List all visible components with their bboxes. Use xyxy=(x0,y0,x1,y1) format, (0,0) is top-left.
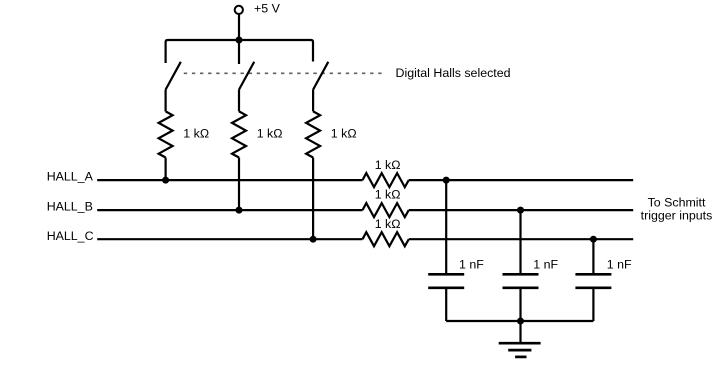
resistor R6 on HALL_C xyxy=(363,232,409,246)
switch S1 xyxy=(166,62,181,90)
wire HALL_B left xyxy=(97,209,362,211)
node rail/ground junction xyxy=(517,318,524,325)
capacitor C3 xyxy=(575,273,611,276)
wire HALL_B to C2 xyxy=(519,210,521,274)
resistor R5 on HALL_B xyxy=(363,203,409,217)
ground xyxy=(499,343,541,357)
resistor R4 on HALL_A xyxy=(363,173,409,187)
svg-text:1 kΩ: 1 kΩ xyxy=(183,127,209,141)
wire top bus xyxy=(166,40,313,63)
node supply/bus junction xyxy=(236,37,243,44)
svg-text:HALL_B: HALL_B xyxy=(47,200,93,214)
svg-text:+5 V: +5 V xyxy=(254,1,281,15)
svg-text:trigger inputs: trigger inputs xyxy=(641,209,713,223)
svg-text:1 nF: 1 nF xyxy=(459,258,484,272)
wire HALL_A to C1 xyxy=(445,180,447,274)
wire ground rail xyxy=(446,320,593,322)
wire R1 to HALL_A xyxy=(165,158,167,181)
+5V terminal xyxy=(235,6,243,14)
svg-text:To Schmitt: To Schmitt xyxy=(648,196,706,210)
wire HALL_A right xyxy=(409,179,633,181)
svg-text:1 nF: 1 nF xyxy=(607,258,632,272)
wire C3 to rail xyxy=(592,288,594,321)
wire C2 to rail xyxy=(519,288,521,321)
svg-text:1 kΩ: 1 kΩ xyxy=(331,127,357,141)
svg-text:1 kΩ: 1 kΩ xyxy=(257,127,283,141)
svg-text:1 kΩ: 1 kΩ xyxy=(375,188,401,202)
capacitor C2 xyxy=(503,273,539,276)
svg-text:1 nF: 1 nF xyxy=(533,258,558,272)
svg-text:HALL_C: HALL_C xyxy=(47,229,94,243)
resistor R2 xyxy=(232,111,246,157)
wire HALL_B right xyxy=(409,209,633,211)
wire HALL_C to C3 xyxy=(592,239,594,274)
wire C1 to rail xyxy=(445,288,447,321)
node HALL_C/C3 junction xyxy=(590,236,597,243)
wire S3 to R3 xyxy=(312,90,314,112)
svg-text:1 kΩ: 1 kΩ xyxy=(375,217,401,231)
svg-text:1 kΩ: 1 kΩ xyxy=(375,158,401,172)
wire supply to bus xyxy=(238,14,240,40)
wire center stub xyxy=(238,40,240,64)
wire HALL_A left xyxy=(97,179,362,181)
svg-text:Digital Halls selected: Digital Halls selected xyxy=(396,66,511,80)
wire R2 to HALL_B xyxy=(238,158,240,211)
wire S1 to R1 xyxy=(165,90,167,112)
wire R3 to HALL_C xyxy=(312,158,314,240)
node HALL_B/C2 junction xyxy=(517,207,524,214)
switch S2 xyxy=(239,62,254,90)
wire HALL_C right xyxy=(409,238,633,240)
node R1/HALL_A junction xyxy=(162,177,169,184)
wire ground stem xyxy=(519,321,521,343)
svg-text:HALL_A: HALL_A xyxy=(47,170,94,184)
node R3/HALL_C junction xyxy=(310,236,317,243)
switch S3 xyxy=(313,62,328,90)
wire S2 to R2 xyxy=(238,90,240,112)
wire HALL_C left xyxy=(97,238,362,240)
capacitor C1 xyxy=(428,273,464,276)
resistor R3 xyxy=(306,111,320,157)
control dashed line xyxy=(184,72,384,74)
node R2/HALL_B junction xyxy=(236,207,243,214)
resistor R1 xyxy=(159,111,173,157)
node HALL_A/C1 junction xyxy=(443,177,450,184)
